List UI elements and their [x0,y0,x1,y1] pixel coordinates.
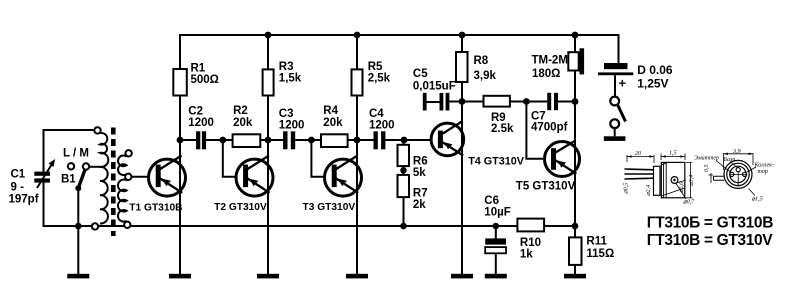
svg-text:1,5k: 1,5k [279,73,302,85]
switch B1 lever [79,169,86,188]
svg-text:R3: R3 [279,61,294,73]
capacitor C2 1200 [188,106,214,150]
svg-text:тор: тор [758,169,768,175]
svg-text:197pf: 197pf [9,193,39,205]
terminal secondary bottom (on bus) [124,222,130,228]
svg-text:C5: C5 [413,68,428,80]
wire C5 node to R9 [462,101,484,103]
terminal secondary mid (to T1 base) [125,174,131,180]
resistor R4 [321,105,348,147]
svg-text:⌀0,5: ⌀0,5 [624,183,630,194]
capacitor C6 10uF electrolytic [484,195,510,274]
resistor R6 [398,140,428,179]
svg-text:R1: R1 [191,63,206,75]
svg-text:1,25V: 1,25V [637,77,668,91]
node rail TM-2M [572,32,579,39]
wire T2 base tap [223,140,242,177]
resistor R2 [233,105,261,147]
svg-text:R5: R5 [368,61,383,73]
svg-text:⌀3,4: ⌀3,4 [688,175,695,186]
svg-text:5k: 5k [413,167,426,179]
flange [654,166,661,195]
svg-text:0,5: 0,5 [704,165,710,173]
svg-text:T1 GT310B: T1 GT310B [129,202,182,213]
wire T1 base [132,176,157,178]
svg-text:180Ω: 180Ω [532,68,560,80]
svg-text:R11: R11 [586,235,607,247]
svg-text:4700pf: 4700pf [531,121,568,133]
svg-text:B1: B1 [61,174,76,186]
terminal secondary top (open) [125,150,131,156]
leader d1,5 [749,189,756,196]
body [661,162,685,197]
svg-text:Эмиттер: Эмиттер [694,156,719,162]
svg-text:1200: 1200 [188,117,214,129]
svg-text:20: 20 [635,151,641,157]
resistor R8 [456,35,496,102]
svg-text:T5 GT310V: T5 GT310V [516,181,576,193]
dimension 3,9 [724,153,754,170]
node R6/R7 [400,167,407,174]
svg-text:R10: R10 [520,237,541,249]
key tab [714,176,725,180]
node C6 on bus [493,223,500,230]
transistor T3 GT310V [303,140,362,274]
resistor R9 [484,96,527,135]
svg-text:R7: R7 [413,187,428,199]
resistor R5 [352,35,391,140]
svg-text:1200: 1200 [369,120,395,132]
transistor T2 GT310V [214,140,273,274]
dimension 20 [627,155,654,163]
svg-text:R2: R2 [233,105,248,117]
svg-text:База: База [723,157,736,163]
ground B1 [67,274,89,279]
svg-text:3,9k: 3,9k [474,70,497,82]
node R7 on bus [400,223,407,230]
ground T1 [169,274,191,279]
node rail R3 [265,32,272,39]
ground C6 [485,274,507,279]
wire top rail [180,34,619,36]
label C1 value [9,169,39,206]
wire left input loop top [44,129,94,131]
wire bottom bus left of R10 [44,225,518,227]
body inner lines [661,162,686,197]
svg-text:⌀2,4: ⌀2,4 [645,185,652,196]
terminal primary top [94,127,100,133]
svg-text:2.5k: 2.5k [491,123,514,135]
wire primary tap [89,166,100,168]
svg-text:C2: C2 [188,106,203,118]
headphone TM-2M 180ohm [532,35,585,102]
ground T4 [451,274,473,279]
svg-text:D 0.06: D 0.06 [637,63,673,77]
svg-text:T3 GT310V: T3 GT310V [303,202,356,213]
svg-text:ГТ310В = GT310V: ГТ310В = GT310V [647,232,773,249]
pin leads [625,169,656,179]
wire bottom bus right of R10 [544,225,575,227]
capacitor C5 0,015uF [413,68,462,111]
node C5/R8 [459,98,466,105]
leader 0,7 [676,184,686,200]
terminal primary bottom (on bus) [92,223,98,229]
capacitor C1 (variable, 9-197pf) [34,159,55,188]
svg-text:R8: R8 [474,55,489,67]
svg-text:1,5: 1,5 [669,151,677,157]
svg-text:ГТ310Б = GT310B: ГТ310Б = GT310B [647,214,773,231]
svg-text:T4 GT310V: T4 GT310V [468,156,525,168]
transistor T4 GT310V [431,102,525,275]
svg-text:0,015uF: 0,015uF [413,81,456,93]
svg-text:C3: C3 [279,108,294,120]
leader base [730,162,737,168]
resistor R11 [569,226,614,274]
wire T3 base tap [311,140,330,177]
node T3 base [308,137,315,144]
svg-text:500Ω: 500Ω [191,74,219,86]
leader emitter [716,161,731,173]
dimension 0,5 [709,173,714,183]
resistor R10 [517,219,544,261]
transistor T1 GT310B [129,140,185,274]
transistor package bottom view [709,153,757,196]
switch (power) [604,75,626,141]
resistor R7 [398,175,428,226]
battery D 0.06 1,25V [598,34,673,91]
node T2 base [219,137,226,144]
svg-text:2,5k: 2,5k [368,73,391,85]
svg-text:L / M: L / M [63,148,89,160]
svg-text:1k: 1k [520,249,533,261]
node T3 collector [354,137,361,144]
pins [730,172,734,176]
svg-text:⌀0,7: ⌀0,7 [683,200,695,206]
node B1 pivot [75,185,81,191]
capacitor C7 4700pf [526,93,575,134]
svg-text:⌀1,5: ⌀1,5 [752,197,763,203]
wire B1 to bus and ground [77,188,79,274]
switch B1 contact right [83,163,89,169]
wire C1 branch upper [43,129,45,172]
wire T5 base from C7 node [526,102,550,159]
svg-text:⌀5,6: ⌀5,6 [679,182,685,193]
svg-text:20k: 20k [323,117,343,129]
node R9/C7 [523,98,530,105]
dimension right [686,162,693,197]
inductor secondary winding bottom section [118,180,127,222]
switch B1 contact left [68,163,74,169]
svg-text:R4: R4 [323,105,338,117]
svg-text:Коллек-: Коллек- [754,163,774,169]
svg-text:2k: 2k [413,199,426,211]
svg-text:T2 GT310V: T2 GT310V [214,202,267,213]
svg-text:9 -: 9 - [11,181,25,193]
node B1 on bus [75,223,82,230]
ground T3 [346,274,368,279]
svg-text:3,9: 3,9 [732,149,741,155]
ground T2 [257,274,279,279]
svg-text:C1: C1 [11,169,26,181]
inductor L primary winding [100,133,108,223]
resistor R3 [263,35,302,140]
transistor package side view [625,154,693,200]
capacitor C3 1200 [279,108,305,149]
node rail R5 [354,32,361,39]
svg-text:1200: 1200 [279,120,305,132]
svg-text:C4: C4 [369,108,384,120]
svg-text:+: + [619,76,627,91]
node T1 collector [177,137,184,144]
leader collector [747,167,756,172]
svg-text:20k: 20k [233,117,253,129]
node rail R8 [459,32,466,39]
ground R11 [564,274,586,279]
node R11 on bus [572,223,579,230]
inductor secondary winding top section [118,155,127,175]
transistor T5 GT310V [516,102,580,238]
transformer core [111,128,116,237]
body center hole [671,177,678,184]
svg-text:C6: C6 [484,195,499,207]
svg-text:R6: R6 [413,156,428,168]
svg-text:TM-2M: TM-2M [532,54,568,66]
node C7/TM-2M [572,98,579,105]
wire C1 branch lower [43,182,45,227]
svg-text:115Ω: 115Ω [586,248,614,260]
wire coupling row y=140 [180,139,438,141]
node T4 base [401,137,408,144]
resistor R1 [173,34,219,140]
capacitor C4 1200 [369,108,395,149]
node T2 collector [265,137,272,144]
svg-text:10µF: 10µF [484,207,510,219]
